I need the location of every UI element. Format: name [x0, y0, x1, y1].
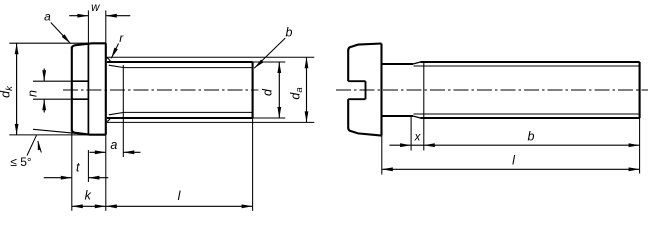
svg-text:l: l [178, 189, 182, 203]
svg-text:x: x [414, 132, 422, 144]
svg-text:dk: dk [0, 85, 15, 98]
svg-text:da: da [289, 87, 306, 99]
svg-text:k: k [85, 189, 92, 203]
svg-text:d: d [261, 88, 275, 96]
svg-text:b: b [528, 129, 535, 143]
svg-text:w: w [91, 2, 100, 14]
svg-text:b: b [286, 26, 293, 40]
svg-text:≤ 5°: ≤ 5° [10, 155, 32, 169]
svg-text:r: r [119, 31, 124, 45]
svg-text:n: n [25, 90, 39, 97]
svg-text:a: a [110, 138, 117, 152]
svg-text:l: l [512, 153, 516, 167]
svg-text:t: t [76, 161, 80, 175]
svg-text:a: a [44, 10, 51, 24]
